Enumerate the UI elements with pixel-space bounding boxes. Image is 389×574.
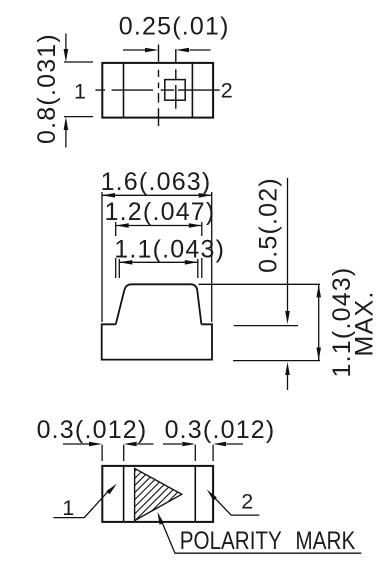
svg-text:0.25(.01): 0.25(.01) (119, 12, 230, 40)
svg-text:1.1(.043): 1.1(.043) (114, 236, 225, 264)
svg-text:2: 2 (221, 78, 233, 102)
extension line base bottom (233, 360, 320, 362)
divider right (194, 466, 196, 522)
svg-text:2: 2 (241, 490, 253, 514)
svg-text:POLARITY: POLARITY (180, 526, 282, 554)
dim 1.1 dimension line (119, 260, 198, 265)
dim 0.3 right arrows (163, 442, 243, 447)
dim 1.6 dimension line (102, 193, 212, 198)
svg-text:1: 1 (74, 79, 86, 103)
dim 1.6 extension lines (102, 192, 212, 322)
cathode mark square (165, 80, 185, 101)
top view package outline (102, 63, 213, 118)
bottom view package outline (102, 466, 213, 522)
pin 1 leader (53, 484, 117, 518)
dim 1.1 max dimension line (316, 284, 321, 360)
dim 0.5 dimension arrows (285, 178, 290, 390)
polarity triangle (76, 455, 222, 530)
dim 0.3 left arrows (63, 442, 154, 447)
svg-text:1.6(.063): 1.6(.063) (101, 168, 212, 196)
svg-text:0.5(.02): 0.5(.02) (255, 177, 283, 273)
dim 0.8 extension lines (64, 62, 93, 117)
extension line base top (234, 325, 298, 327)
dim 1.2 dimension line (116, 223, 202, 228)
extension line body top (199, 283, 321, 285)
svg-text:MARK: MARK (295, 526, 356, 554)
polarity mark leader (157, 512, 361, 554)
divider left (123, 466, 125, 522)
svg-text:1: 1 (62, 496, 74, 520)
dim 0.25 arrows (123, 48, 211, 53)
vertical center line (158, 45, 160, 127)
terminal divider left (123, 63, 125, 118)
terminal divider right (191, 63, 193, 118)
svg-text:MAX.: MAX. (351, 291, 379, 357)
dim 0.3 left extension lines (102, 445, 124, 461)
horizontal center line (95, 89, 219, 91)
side view package outline (102, 284, 212, 359)
pin 2 leader (207, 489, 260, 515)
dim 0.8 dimension arrows (64, 34, 69, 148)
cathode square center line (175, 49, 177, 109)
dim 1.1 extension lines (119, 259, 198, 278)
dim 0.3 right extension lines (195, 445, 213, 461)
svg-text:0.3(.012): 0.3(.012) (37, 416, 148, 444)
dim 1.2 extension lines (116, 222, 202, 278)
polarity mark label (180, 526, 356, 554)
svg-text:0.8(.031): 0.8(.031) (33, 33, 61, 144)
svg-text:0.3(.012): 0.3(.012) (165, 416, 276, 444)
svg-text:1.2(.047): 1.2(.047) (105, 198, 216, 226)
